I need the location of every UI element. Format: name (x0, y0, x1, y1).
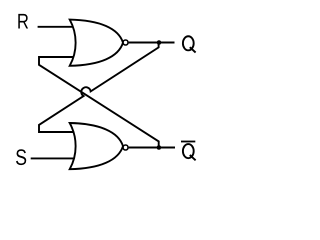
node Qbar junction dot (157, 145, 162, 150)
label S (16, 149, 26, 165)
wire Q feedback with hop (bottom gate upper input to top output node) (39, 43, 159, 133)
label Qbar overbar (181, 141, 195, 143)
label Q (tail) (190, 47, 196, 52)
NOR gate U1 body (top) (70, 20, 123, 66)
NOR gate U2 output bubble (123, 145, 128, 150)
wire Qbar feedback (top gate lower input to bottom output node) (39, 57, 159, 148)
label Qbar (tail) (190, 155, 196, 160)
wire Qbar output (129, 147, 175, 149)
label Q (ellipse body) (183, 36, 194, 50)
label Qbar (ellipse body) (183, 144, 194, 158)
node Q junction dot (157, 40, 162, 45)
NOR gate U1 output bubble (123, 40, 128, 45)
wire R input (38, 26, 75, 28)
wire S input (31, 157, 75, 159)
NOR gate U2 body (bottom) (70, 123, 123, 169)
label R (18, 14, 28, 29)
wire Q output (129, 42, 175, 44)
